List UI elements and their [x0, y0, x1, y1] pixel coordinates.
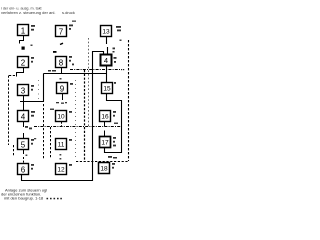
dashed vertical bus far right — [128, 40, 130, 161]
svg-text:8: 8 — [59, 59, 64, 68]
svg-text:verfahren z. steuerung der anl: verfahren z. steuerung der anl. — [1, 10, 55, 15]
svg-text:5: 5 — [21, 141, 26, 150]
wire box8 down to bus — [61, 68, 63, 74]
box 2 — [18, 57, 29, 68]
caption line 3 dots — [47, 198, 62, 200]
box 1 — [18, 25, 29, 36]
box 8 — [56, 57, 67, 68]
pin below box16 — [104, 122, 106, 127]
box 5 — [18, 139, 29, 150]
dotted vertical x75.5 — [75, 80, 77, 160]
box 11 — [56, 139, 67, 150]
ref numeral of box 7 — [69, 25, 73, 30]
ref numeral of box 5 — [31, 139, 34, 145]
wire box4 to box5 upper part — [23, 122, 25, 128]
ref numeral of box 18 — [112, 163, 115, 169]
svg-text:3: 3 — [21, 87, 26, 96]
svg-text:4: 4 — [21, 113, 26, 122]
ref numeral of box 2 — [31, 57, 34, 63]
svg-text:13: 13 — [102, 29, 110, 36]
ref numeral of box 16 — [113, 111, 116, 117]
box 17 — [100, 137, 111, 148]
svg-text:s.druck: s.druck — [62, 10, 75, 15]
dash-dot horizontal bus y126.5 — [34, 126, 122, 128]
svg-text:15: 15 — [103, 86, 111, 93]
stray dash left of dashed verticals — [34, 138, 36, 139]
dot above box 9 — [60, 78, 62, 80]
box 12 — [56, 164, 67, 175]
top pin of box 14 — [107, 47, 109, 55]
light dashed vertical x88 — [88, 38, 90, 127]
ref numeral of box 12 — [69, 164, 72, 166]
wire below box 5 — [23, 150, 25, 155]
dashed vertical x50.5 — [50, 127, 52, 159]
wire hook below box 2 — [17, 68, 24, 77]
wire bus y101 to corner x44 — [20, 101, 44, 103]
mark left-above box10 — [50, 109, 54, 111]
left margin dashed vertical x8.5 — [8, 76, 10, 146]
label above dashed line y161 — [108, 156, 117, 159]
wire below box 9 — [62, 94, 64, 101]
box 9 — [57, 83, 68, 94]
left margin dashed corner — [9, 75, 17, 77]
ref numeral of box 13 — [116, 26, 121, 31]
stray mark top middle — [72, 21, 76, 22]
stray dot left of box7 mark — [31, 45, 33, 47]
ref marks right of box14 top pin — [113, 48, 116, 53]
svg-text:6: 6 — [21, 166, 26, 175]
junction square between box1 and box2 — [22, 47, 25, 50]
dashed pin into box 6 — [23, 157, 25, 163]
dashed horizontal y161 — [76, 161, 129, 163]
label above dashed bus right — [114, 123, 118, 125]
pin below box 14 down to box 15 — [106, 66, 108, 83]
box 18 — [99, 163, 110, 174]
dot right of pin — [120, 40, 122, 42]
label beside wire 4-5 — [25, 126, 32, 129]
arrow mark below box 7 — [60, 43, 63, 44]
svg-text:10: 10 — [57, 114, 65, 121]
svg-text:11: 11 — [58, 142, 65, 149]
svg-text:1: 1 — [21, 27, 26, 36]
ref numeral of box 1 — [31, 25, 35, 31]
dotted vertical x38 — [38, 80, 40, 100]
dash above box 8 — [53, 51, 57, 53]
ref numeral of box 8 — [69, 56, 74, 65]
left margin dashed vertical x13.5 — [13, 145, 15, 157]
ref numeral of box 10 — [69, 111, 72, 113]
dash-dot control line y69 — [70, 69, 120, 71]
svg-text:mit den baugrup. 1-18: mit den baugrup. 1-18 — [4, 195, 44, 200]
box 3 — [18, 85, 29, 96]
tail dots of control line — [121, 69, 124, 70]
box 7 — [56, 26, 67, 37]
svg-text:17: 17 — [101, 140, 109, 147]
svg-text:9: 9 — [60, 85, 65, 94]
ref numeral of box 17 — [113, 137, 116, 146]
corner wire down from bus to y101 — [43, 74, 45, 102]
dots between box11 and box12 — [60, 154, 62, 160]
pin above box17 — [104, 131, 106, 137]
wire box4 to box5 lower part — [23, 133, 25, 138]
solid bus y74 from corner to box14 pin — [44, 73, 107, 75]
wire hook below box 1 — [20, 36, 24, 44]
box 4 — [18, 111, 29, 122]
wire box6 bottom to long bus — [22, 52, 104, 181]
U wire box15 to box17 via right — [105, 94, 122, 153]
bold dashed vertical x84 — [84, 70, 86, 161]
dashed pin below box10 — [61, 122, 63, 127]
dashes right of box9 pin — [56, 102, 67, 104]
ref numeral of box 14 — [114, 57, 117, 63]
label under box8 left — [48, 70, 56, 72]
svg-text:18: 18 — [100, 166, 108, 173]
svg-text:2: 2 — [21, 59, 26, 68]
ref numeral of box 3 — [31, 85, 34, 91]
pin below box 13 — [106, 37, 108, 45]
dashed vertical x43.5 — [43, 104, 45, 159]
box 6 — [18, 164, 29, 175]
svg-text:12: 12 — [57, 167, 65, 174]
wire box3 to bus — [23, 96, 25, 111]
ref numeral of box 4 — [31, 111, 35, 117]
svg-text:4: 4 — [104, 56, 108, 65]
box 14 — [101, 55, 112, 66]
ref numeral of box 11 — [69, 139, 72, 141]
box 13 — [101, 26, 112, 37]
ref numeral of box 6 — [31, 164, 34, 170]
ref numeral of box 15 — [114, 82, 116, 84]
box 10 — [56, 111, 67, 122]
svg-text:7: 7 — [59, 28, 64, 37]
box 16 — [100, 111, 111, 122]
dot near wire 5-6 — [26, 155, 28, 157]
box 15 — [102, 83, 113, 94]
ref numeral of box 9 — [70, 83, 73, 85]
svg-text:16: 16 — [101, 114, 109, 121]
